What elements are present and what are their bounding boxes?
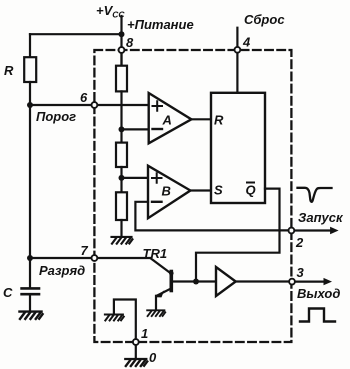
plus sign comparator A [153, 101, 163, 111]
waveform icon output square pulse [300, 309, 335, 322]
svg-text:+VCC: +VCC [96, 3, 125, 20]
pin 8 terminal circle [119, 47, 125, 53]
svg-text:Выход: Выход [297, 286, 340, 301]
resistor divider bottom [116, 192, 127, 220]
pin 3 terminal circle [289, 279, 295, 285]
wire divider R1 to tap A [120, 91, 122, 142]
wire base node to buffer input [173, 280, 216, 282]
ground internal hook [105, 314, 124, 320]
pin 6 terminal circle [92, 102, 98, 108]
pin 1 terminal circle [133, 339, 139, 345]
ground below emitter [147, 310, 165, 316]
wire comparator B output to S input [190, 189, 211, 191]
resistor divider middle [116, 143, 127, 167]
node threshold junction [27, 102, 33, 108]
arrowhead trigger [330, 227, 339, 234]
wire internal ground hook for pin 1 [114, 300, 136, 343]
svg-text:B: B [162, 184, 171, 199]
capacitor C [22, 288, 39, 294]
plus sign comparator B [152, 173, 162, 183]
junction dot Vcc [119, 31, 125, 37]
wire discharge node to capacitor [29, 258, 31, 287]
ground below pin 1 [125, 359, 147, 366]
svg-text:TR1: TR1 [143, 246, 168, 261]
svg-text:A: A [162, 113, 172, 128]
node discharge junction [27, 255, 33, 261]
wire buffer output to pin 3 [236, 280, 292, 282]
transistor TR1 collector lead [151, 258, 170, 272]
junction dot base node [193, 279, 199, 285]
resistor divider top [116, 66, 127, 92]
wire discharge line to transistor collector [30, 257, 151, 259]
wire comparator B - input wrap to trigger line [135, 202, 291, 231]
ground below capacitor [19, 312, 42, 319]
transistor TR1 emitter lead [157, 288, 171, 295]
minus sign comparator B [152, 201, 162, 203]
wire pin 1 to ground [135, 345, 137, 358]
op-amp comparator B [148, 166, 190, 219]
wire +Vcc supply vertical [120, 16, 122, 66]
wire capacitor to ground [29, 295, 31, 310]
wire reset pin 4 vertical [236, 28, 238, 93]
pin 4 terminal circle [235, 47, 241, 53]
waveform icon trigger pulse [298, 188, 332, 202]
svg-text:7: 7 [81, 243, 89, 258]
svg-text:1: 1 [141, 326, 148, 341]
flip-flop U1 box [211, 93, 265, 203]
svg-text:R: R [4, 63, 14, 78]
op-amp comparator A [149, 93, 192, 143]
overbar of Q [246, 182, 255, 184]
divider resistor chain top wire [120, 50, 122, 66]
svg-text:0: 0 [149, 350, 157, 365]
ground below divider [112, 237, 133, 244]
svg-text:S: S [214, 183, 223, 198]
svg-text:6: 6 [80, 90, 88, 105]
svg-text:Запуск: Запуск [298, 210, 344, 225]
wire comparator A output to R input [191, 118, 211, 120]
svg-text:3: 3 [297, 265, 305, 280]
svg-text:Разряд: Разряд [39, 263, 85, 278]
dashed IC boundary box [94, 50, 291, 342]
wire top horizontal Vcc to R [30, 33, 122, 35]
svg-text:Q: Q [246, 183, 256, 198]
pin 2 terminal circle [289, 228, 295, 234]
transistor TR1 base bar [170, 272, 174, 291]
resistor R [24, 57, 36, 82]
transistor TR1 collector junction blob [169, 271, 174, 276]
svg-text:Сброс: Сброс [244, 12, 285, 27]
svg-text:R: R [214, 113, 224, 128]
svg-text:4: 4 [242, 35, 251, 50]
wire threshold line to comparator A + input [30, 104, 149, 106]
wire left rail upper [29, 34, 31, 57]
svg-text:C: C [3, 285, 13, 300]
wire tap B to comparator B + input [122, 177, 149, 179]
svg-text:+Питание: +Питание [127, 17, 194, 32]
pin 7 terminal circle [92, 255, 98, 261]
wire divider R3 to ground [120, 220, 122, 236]
svg-text:8: 8 [126, 35, 134, 50]
buffer amplifier [216, 267, 236, 296]
svg-text:Порог: Порог [36, 109, 76, 124]
wire divider R2 to tap B [120, 167, 122, 192]
transistor TR1 emitter arrowhead [155, 290, 164, 297]
wire trigger arrow pin 2 [294, 229, 333, 231]
arrowhead output [324, 278, 333, 285]
junction dot tap B [119, 175, 125, 181]
wire left rail threshold to discharge node [29, 105, 31, 258]
junction dot tap A [119, 126, 125, 132]
wire output arrow pin 3 [295, 281, 327, 283]
svg-text:2: 2 [295, 235, 304, 250]
minus sign comparator A [153, 128, 163, 130]
wire Q-bar feedback path [196, 189, 280, 282]
wire tap A to comparator A - input [122, 128, 149, 130]
wire emitter to ground [155, 296, 157, 309]
wire left rail R to threshold node [29, 82, 31, 105]
